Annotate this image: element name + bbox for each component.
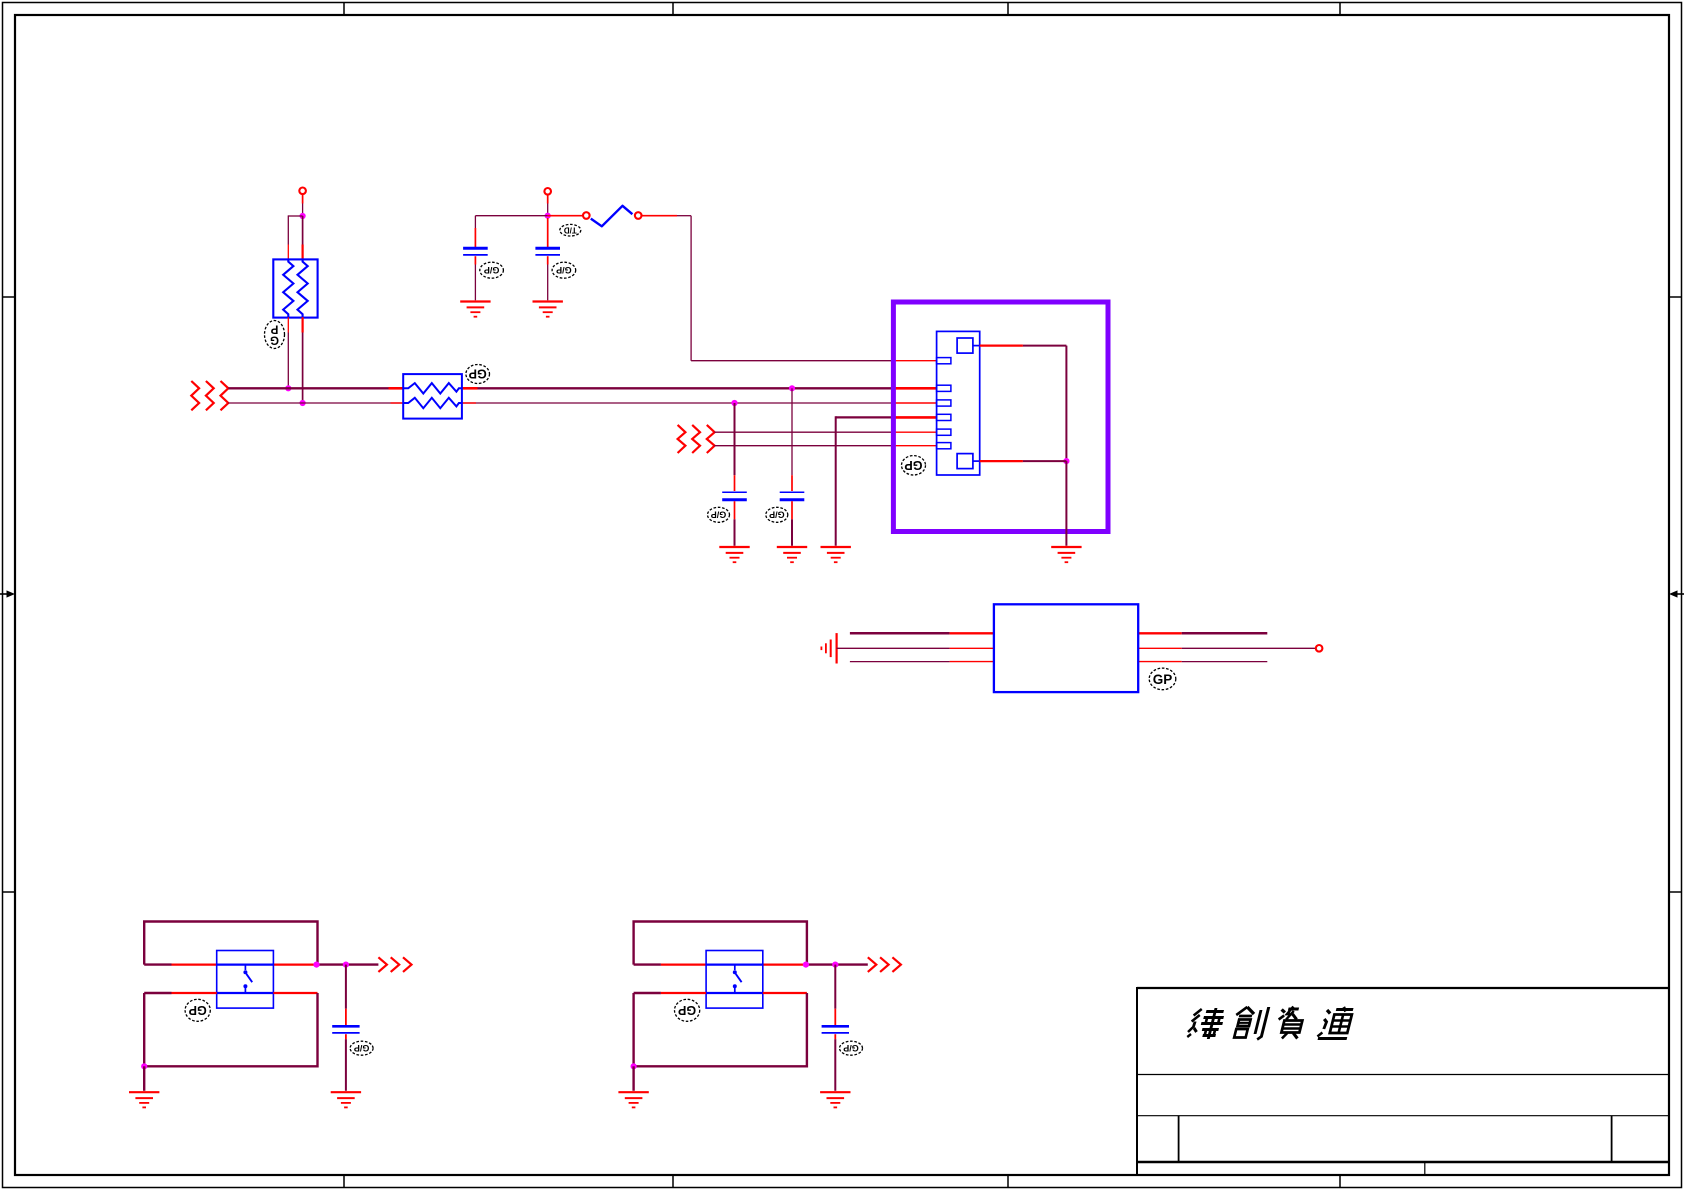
pin stub bbox=[641, 215, 677, 217]
wire bbox=[474, 265, 476, 301]
svg-text:G/P: G/P bbox=[484, 265, 500, 275]
junction bbox=[832, 962, 838, 968]
switch SW1 bbox=[217, 951, 274, 1009]
pin stub bbox=[763, 963, 806, 965]
pin stub bbox=[980, 460, 1023, 462]
ground bbox=[719, 547, 749, 562]
wire bbox=[287, 215, 289, 244]
pin stub bbox=[273, 992, 317, 994]
label G/P (C2) bbox=[552, 262, 576, 278]
pin stub bbox=[734, 501, 736, 519]
ground (rotated) bbox=[821, 633, 836, 663]
junction bbox=[1063, 458, 1069, 464]
wire bbox=[734, 519, 736, 546]
wire bbox=[302, 204, 304, 217]
pin stub bbox=[345, 1034, 347, 1039]
wire bbox=[547, 204, 549, 216]
wire bbox=[1182, 661, 1268, 663]
label GP (U1) bbox=[1149, 668, 1176, 690]
pin stub bbox=[891, 431, 937, 433]
wire bbox=[288, 215, 302, 217]
pin stub bbox=[1138, 661, 1182, 663]
ground bbox=[821, 547, 851, 562]
wire bbox=[850, 632, 950, 635]
svg-text:GP: GP bbox=[678, 1003, 696, 1017]
shield enclosure bbox=[893, 302, 1108, 532]
pin stub bbox=[462, 402, 476, 404]
pin stub bbox=[273, 963, 316, 965]
pin stub bbox=[391, 402, 404, 404]
junction bbox=[803, 962, 809, 968]
pin stub bbox=[661, 992, 706, 994]
wire bbox=[677, 215, 691, 217]
junction bbox=[300, 213, 306, 219]
pin stub bbox=[474, 256, 476, 264]
pin stub bbox=[548, 215, 584, 217]
wire bbox=[345, 965, 347, 1009]
wire bbox=[714, 431, 891, 433]
pin stub bbox=[1138, 632, 1182, 634]
wire bbox=[547, 265, 549, 301]
wire bbox=[302, 194, 304, 204]
ground bbox=[460, 302, 490, 317]
ground bbox=[331, 1092, 361, 1107]
ground bbox=[129, 1092, 159, 1107]
title block bbox=[1137, 987, 1669, 989]
pin stub bbox=[287, 245, 289, 260]
wire bbox=[791, 519, 793, 546]
label G/P (C1) bbox=[480, 262, 504, 278]
connector terminal P1 bbox=[299, 188, 306, 195]
pin stub bbox=[734, 475, 736, 491]
svg-text:G/P: G/P bbox=[354, 1043, 370, 1053]
pin stub bbox=[834, 1034, 836, 1039]
pin stub bbox=[302, 317, 304, 332]
connector terminal P2 bbox=[544, 188, 551, 195]
svg-text:G/P: G/P bbox=[843, 1043, 859, 1053]
wire bbox=[690, 216, 692, 361]
wire bbox=[714, 445, 891, 447]
wire bbox=[1065, 346, 1067, 462]
wire bbox=[834, 1039, 836, 1091]
wire bus1 bbox=[228, 387, 403, 389]
ground bbox=[618, 1092, 648, 1107]
pin stub bbox=[474, 228, 476, 247]
resistor R1 (dual) bbox=[403, 374, 462, 419]
pin stub bbox=[661, 963, 706, 965]
pin stub bbox=[980, 344, 1023, 346]
wire bbox=[836, 416, 891, 418]
wire bbox=[634, 992, 661, 994]
wire bbox=[144, 922, 317, 965]
pin stub bbox=[891, 445, 937, 447]
connector terminal P3 bbox=[1316, 645, 1323, 652]
junction bbox=[285, 385, 291, 391]
wire bbox=[634, 993, 807, 1066]
junction bbox=[300, 400, 306, 406]
wire bus2 bbox=[228, 402, 403, 404]
wire bbox=[634, 963, 661, 965]
capacitor C6 bbox=[822, 1026, 849, 1033]
ground bbox=[533, 302, 563, 317]
junction bbox=[141, 1063, 147, 1069]
label GP (SW1) bbox=[185, 999, 210, 1021]
pin stub bbox=[891, 416, 937, 419]
wire bbox=[632, 1066, 634, 1091]
wire bbox=[547, 194, 549, 203]
capacitor C2 bbox=[535, 248, 560, 255]
pin stub bbox=[287, 317, 289, 332]
wire bbox=[691, 360, 891, 362]
wire bus1 bbox=[462, 387, 891, 389]
wire bbox=[143, 1066, 145, 1091]
pin stub bbox=[1138, 647, 1182, 649]
svg-text:G/P: G/P bbox=[556, 265, 572, 275]
wire bbox=[806, 963, 868, 965]
capacitor C3 bbox=[722, 492, 747, 500]
pin stub bbox=[950, 661, 994, 663]
pin stub bbox=[891, 387, 937, 390]
wire bbox=[791, 388, 793, 475]
svg-text:G/P: G/P bbox=[769, 510, 785, 520]
wire bbox=[1023, 460, 1067, 462]
pin stub bbox=[389, 387, 404, 390]
wire bbox=[837, 647, 950, 649]
capacitor C5 bbox=[332, 1026, 359, 1033]
pin stub bbox=[891, 402, 937, 404]
wire bbox=[835, 416, 837, 546]
label G/P (C5) bbox=[350, 1041, 373, 1055]
wire bus2 bbox=[462, 402, 891, 404]
wire bbox=[144, 963, 171, 965]
wire bbox=[1065, 461, 1067, 546]
wire bbox=[474, 216, 476, 228]
label GP (SW2) bbox=[675, 999, 700, 1021]
off-page connector (pair) bbox=[678, 425, 715, 453]
wire bbox=[850, 661, 950, 663]
pin stub bbox=[791, 475, 793, 491]
pin stub bbox=[834, 1009, 836, 1025]
label G/P (C3) bbox=[708, 507, 730, 522]
label G/P (C6) bbox=[840, 1041, 863, 1055]
capacitor C4 bbox=[780, 492, 805, 500]
wire bbox=[1023, 345, 1067, 347]
label GP (CN1) bbox=[902, 456, 926, 475]
wire bbox=[287, 333, 289, 389]
pin stub bbox=[891, 360, 937, 362]
off-page connector bbox=[378, 957, 411, 972]
junction bbox=[313, 962, 319, 968]
label GP (R1) bbox=[466, 365, 490, 384]
wire bbox=[475, 215, 547, 217]
company logo text bbox=[1186, 1007, 1355, 1040]
junction bbox=[731, 400, 737, 406]
pin stub bbox=[172, 963, 217, 965]
wire bbox=[834, 965, 836, 1009]
pin stub bbox=[172, 992, 217, 994]
wire bbox=[1182, 647, 1316, 649]
svg-text:GP: GP bbox=[189, 1003, 207, 1017]
pin stub bbox=[950, 647, 994, 649]
svg-text:T/D: T/D bbox=[564, 225, 577, 234]
svg-text:GP: GP bbox=[469, 367, 487, 381]
junction bbox=[545, 213, 551, 219]
wire bbox=[302, 216, 304, 245]
svg-text:GP: GP bbox=[1153, 672, 1173, 687]
label GP (RP1) bbox=[265, 321, 285, 349]
pin stub bbox=[547, 218, 549, 247]
pin stub bbox=[345, 1009, 347, 1025]
off-page connector (bus pair) bbox=[191, 381, 228, 410]
pin stub bbox=[547, 256, 549, 264]
svg-text:G/P: G/P bbox=[711, 510, 727, 520]
junction bbox=[631, 1063, 637, 1069]
pin stub bbox=[950, 632, 994, 634]
capacitor C1 bbox=[463, 248, 488, 255]
junction bbox=[343, 962, 349, 968]
svg-text:P: P bbox=[270, 322, 278, 334]
ground bbox=[777, 547, 807, 562]
fuse F1 bbox=[583, 206, 642, 227]
label G/P (C4) bbox=[766, 507, 788, 522]
wire bbox=[302, 333, 304, 404]
wire bbox=[144, 992, 171, 994]
connector CN1 bbox=[937, 331, 980, 475]
ground bbox=[1051, 547, 1081, 562]
filter module U1 bbox=[994, 604, 1138, 692]
junction bbox=[789, 385, 795, 391]
off-page connector bbox=[868, 957, 901, 972]
wire bbox=[734, 403, 736, 475]
wire bbox=[317, 963, 379, 965]
wire bbox=[1182, 632, 1268, 635]
pin stub bbox=[462, 387, 478, 390]
pin stub bbox=[302, 245, 304, 260]
pin stub bbox=[763, 992, 807, 994]
wire bbox=[345, 1039, 347, 1091]
svg-text:GP: GP bbox=[904, 458, 922, 472]
switch SW2 bbox=[706, 951, 763, 1009]
wire bbox=[144, 993, 317, 1066]
pin stub bbox=[791, 501, 793, 519]
ground bbox=[820, 1092, 850, 1107]
label T/D (F1) bbox=[560, 224, 581, 236]
resistor pack RP1 bbox=[273, 259, 317, 317]
wire bbox=[634, 922, 807, 965]
